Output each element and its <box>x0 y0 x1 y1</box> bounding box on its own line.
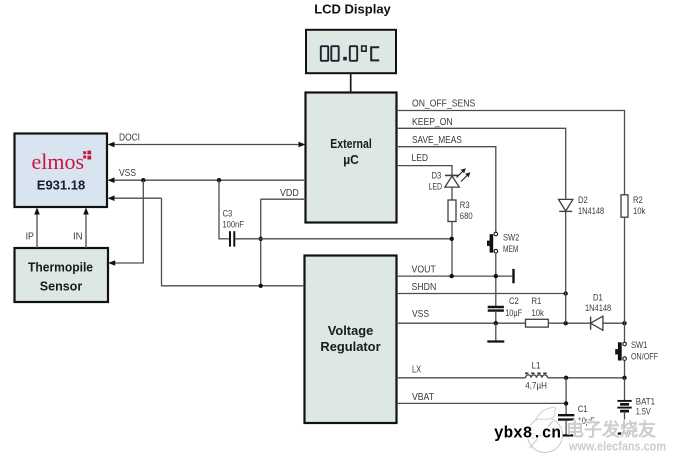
resistor R3 <box>448 200 473 222</box>
svg-text:R1: R1 <box>532 296 542 306</box>
wire LCD to uC <box>350 73 352 93</box>
wire D2 to SHDN/VSS <box>565 211 567 323</box>
diode D1 1N4148 <box>585 293 611 331</box>
svg-text:Voltage: Voltage <box>328 324 374 338</box>
resistor R1 <box>526 296 549 327</box>
wire R1 to D1 <box>548 322 590 324</box>
battery BAT1 1.5V <box>617 378 655 433</box>
LCD segment digit 2 <box>331 46 338 61</box>
svg-text:10k: 10k <box>532 308 545 318</box>
inductor L1 4,7uH <box>525 361 549 391</box>
diode D2 1N4148 <box>559 195 605 216</box>
node D1 / R2-SW1 junction <box>622 321 626 325</box>
wire ON_OFF_SENS <box>397 98 625 194</box>
node VDD / C3 junction <box>259 237 263 241</box>
node VBAT / C1 junction <box>564 401 568 405</box>
svg-text:C2: C2 <box>509 296 519 306</box>
svg-text:ybx8.cn: ybx8.cn <box>494 424 561 443</box>
svg-text:D2: D2 <box>578 195 588 205</box>
switch SW1 ON/OFF <box>615 323 658 361</box>
svg-text:D1: D1 <box>593 293 603 303</box>
svg-text:VSS: VSS <box>119 168 136 179</box>
svg-text:DOCI: DOCI <box>119 132 140 143</box>
node VSS junction 2 <box>217 178 221 182</box>
svg-text:LED: LED <box>429 182 443 192</box>
watermark logo circle <box>528 407 563 452</box>
svg-text:IP: IP <box>26 232 34 243</box>
svg-text:1N4148: 1N4148 <box>578 206 604 216</box>
node VSS / C2 junction <box>494 321 498 325</box>
wire VSS (elmos to uC) <box>108 168 306 183</box>
wire SAVE_MEAS <box>397 135 496 232</box>
node VDD / regulator line junction <box>259 284 263 288</box>
svg-text:ON/OFF: ON/OFF <box>631 351 658 361</box>
wire SW1 to LX line <box>624 360 626 377</box>
capacitor C1 <box>558 404 595 435</box>
external uC U1 <box>306 93 397 223</box>
LCD letter C <box>371 47 379 60</box>
thermopile sensor <box>15 248 109 302</box>
wire D1 to SW1 column <box>603 322 625 324</box>
svg-text:LCD Display: LCD Display <box>314 2 391 17</box>
svg-text:电子发烧友: 电子发烧友 <box>566 419 656 440</box>
wire VSS pin <box>397 309 526 323</box>
svg-text:External: External <box>330 137 372 151</box>
svg-text:VBAT: VBAT <box>412 392 435 403</box>
wire thermopile feedback <box>108 180 143 266</box>
node LX / SW1-BAT1 junction <box>622 376 626 380</box>
wire LX <box>397 364 625 378</box>
wire VBAT <box>397 392 567 404</box>
capacitor C2 <box>488 296 523 323</box>
svg-text:SHDN: SHDN <box>412 282 437 293</box>
wire LED pin <box>397 153 453 175</box>
svg-text:R2: R2 <box>633 195 643 205</box>
LCD display box <box>306 30 396 73</box>
svg-text:100nF: 100nF <box>223 219 245 229</box>
LCD segment digit 1 <box>321 46 328 61</box>
wire C3 to R3 node <box>235 238 452 240</box>
wire elmos third input <box>108 195 162 201</box>
ground below C2 <box>487 323 504 341</box>
node LX / C1 branch junction <box>564 376 568 380</box>
wire VDD <box>261 188 306 199</box>
ground below C1 <box>559 434 574 436</box>
switch SW2 MEM <box>487 232 519 254</box>
svg-text:680: 680 <box>460 211 473 221</box>
resistor R2 <box>621 195 646 217</box>
node R1-D1 / D2 junction <box>564 321 568 325</box>
svg-text:IN: IN <box>73 232 83 243</box>
svg-text:SW1: SW1 <box>631 340 647 350</box>
node R3 / C3 line junction <box>450 237 454 241</box>
wire KEEP_ON <box>397 117 566 199</box>
wire LX node down to C1 <box>565 378 567 415</box>
svg-text:1N4148: 1N4148 <box>585 303 611 313</box>
svg-text:10µF: 10µF <box>505 308 522 318</box>
svg-text:C1: C1 <box>578 404 588 414</box>
svg-text:www.elecfans.com: www.elecfans.com <box>568 439 666 454</box>
svg-text:KEEP_ON: KEEP_ON <box>412 117 453 128</box>
svg-text:Thermopile: Thermopile <box>28 260 93 274</box>
elmos IC E931.18 <box>15 134 108 208</box>
svg-text:Sensor: Sensor <box>40 280 83 294</box>
node VOUT / SW2 junction <box>494 274 498 278</box>
voltage regulator U2 <box>305 256 397 424</box>
LCD decimal dot <box>343 57 347 61</box>
wire R2 to D1 node <box>624 217 626 323</box>
svg-text:1.5V: 1.5V <box>636 406 652 416</box>
LCD degree symbol <box>362 46 366 51</box>
svg-text:4,7µH: 4,7µH <box>525 381 547 391</box>
svg-text:Regulator: Regulator <box>320 340 380 354</box>
wire D3 to R3 <box>451 187 453 200</box>
LCD segment digit 3 <box>350 46 357 61</box>
VOUT end bar <box>512 269 514 283</box>
wire C3 branch vertical <box>218 180 220 239</box>
ground below BAT1 <box>618 432 631 434</box>
svg-text:SW2: SW2 <box>503 233 519 243</box>
svg-text:µC: µC <box>343 153 359 167</box>
wire DOCI bidirectional <box>108 132 306 147</box>
wire VOUT <box>397 264 513 276</box>
svg-text:VSS: VSS <box>412 309 429 320</box>
wire SHDN <box>397 282 566 294</box>
svg-text:LED: LED <box>412 153 429 164</box>
svg-text:BAT1: BAT1 <box>636 396 655 406</box>
svg-text:MEM: MEM <box>503 244 518 254</box>
svg-text:E931.18: E931.18 <box>37 177 85 192</box>
watermark dotted chip <box>569 421 582 434</box>
wire R3 to VOUT line <box>451 222 453 277</box>
svg-text:10k: 10k <box>633 206 646 216</box>
svg-text:L1: L1 <box>532 361 541 371</box>
svg-text:LX: LX <box>412 364 421 375</box>
svg-text:SAVE_MEAS: SAVE_MEAS <box>412 135 462 146</box>
wire VDD vertical <box>260 199 262 286</box>
node VOUT / R3 junction <box>450 274 454 278</box>
svg-text:VDD: VDD <box>280 188 299 199</box>
wire SW2 to C2 <box>495 253 497 307</box>
svg-text:D3: D3 <box>432 171 442 181</box>
wire IN arrow <box>73 208 89 249</box>
LED D3 <box>429 168 471 192</box>
capacitor C3 <box>219 208 244 246</box>
svg-text:elmos: elmos <box>32 149 85 174</box>
node VSS junction 1 <box>141 178 145 182</box>
node SHDN / D2 junction <box>564 291 568 295</box>
wire IP arrow <box>26 208 40 249</box>
svg-text:VOUT: VOUT <box>412 264 437 275</box>
svg-text:R3: R3 <box>460 200 470 210</box>
wire vertical to regulator left <box>162 198 305 286</box>
svg-text:ON_OFF_SENS: ON_OFF_SENS <box>412 98 475 109</box>
svg-text:C3: C3 <box>223 208 233 218</box>
